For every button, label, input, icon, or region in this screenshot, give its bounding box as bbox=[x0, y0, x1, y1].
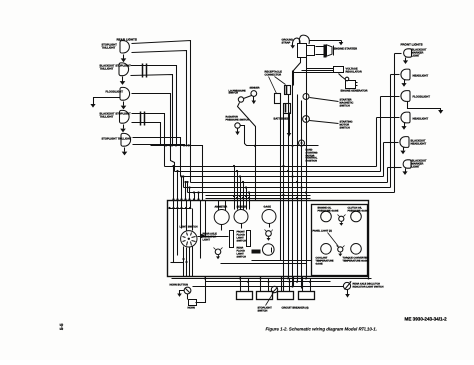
wire: low pressure to sender bbox=[244, 96, 252, 99]
wire: vertical x=306 starter to switches and panel bbox=[306, 58, 308, 279]
junction dots on harness crossings bbox=[282, 145, 307, 199]
wire: radiator switch to bus bbox=[241, 126, 319, 146]
wire: front bundle vertical x=390.5 bbox=[390, 75, 392, 188]
svg-text:STRAP: STRAP bbox=[282, 42, 291, 45]
light switch bbox=[181, 231, 197, 247]
wire: breaker 3 feeds bbox=[282, 277, 290, 289]
wire: front lamp stub y=74.5 bbox=[391, 74, 400, 76]
svg-text:TEMPERATURE GAGE: TEMPERATURE GAGE bbox=[343, 260, 369, 263]
stoplight switch bbox=[271, 286, 277, 292]
svg-text:SWITCH: SWITCH bbox=[237, 256, 247, 259]
wire: front bundle vertical x=376.5 bbox=[376, 118, 378, 167]
wire: main harness bus 5 bbox=[184, 187, 391, 189]
wire: below light switch bbox=[171, 247, 193, 277]
wire: front lamp stub y=117.5 bbox=[377, 117, 400, 119]
wire: main harness bus 3 bbox=[181, 176, 384, 178]
svg-text:HEADLIGHT: HEADLIGHT bbox=[413, 118, 429, 121]
wire: vertical x=280 (battery) bbox=[280, 104, 282, 261]
svg-text:HEADLIGHT: HEADLIGHT bbox=[411, 143, 427, 146]
wire: front bundle vertical x=387 bbox=[387, 168, 389, 183]
wire: rear lamp1 bottom feed, ends at y146 bus bbox=[132, 51, 188, 147]
wire: front lamp stub y=53 bbox=[395, 53, 402, 55]
starting motor switch bbox=[303, 116, 310, 123]
svg-text:BATTERIES: BATTERIES bbox=[274, 118, 289, 121]
ground (rear axle switch) bbox=[345, 290, 350, 298]
svg-text:CONNECTOR: CONNECTOR bbox=[265, 74, 282, 77]
wire: drop 3 into panel, junction bbox=[180, 175, 182, 200]
wire: inner panel horizontal y=260 bbox=[252, 260, 312, 262]
wire: rear floodlight feed, long vertical with jog bbox=[132, 94, 175, 172]
circuit breaker 4 bbox=[299, 289, 315, 300]
lamp: stoplight taillight (rear 1) bbox=[102, 38, 137, 54]
connector block 3 (dark) bbox=[284, 104, 291, 114]
ground for blackout marker light (front 1) bbox=[403, 58, 408, 65]
svg-text:FLOODLIGHT: FLOODLIGHT bbox=[106, 91, 124, 94]
svg-text:ENGINE GENERATOR: ENGINE GENERATOR bbox=[341, 90, 368, 93]
svg-text:INDICATOR LIGHT SWITCH: INDICATOR LIGHT SWITCH bbox=[353, 286, 384, 289]
horn bbox=[188, 294, 197, 306]
hand starting switch bbox=[299, 140, 305, 146]
wire: drop 1 into panel, junction bbox=[172, 165, 174, 201]
svg-text:TAILLIGHT: TAILLIGHT bbox=[102, 47, 116, 50]
svg-text:5-5: 5-5 bbox=[59, 323, 64, 330]
wire: drop 7 into panel, junction bbox=[197, 191, 199, 200]
engine starter U0 body bbox=[298, 44, 334, 58]
svg-text:GAGE: GAGE bbox=[264, 206, 272, 209]
torque converter temperature gage bbox=[351, 244, 362, 255]
lamp: stoplight taillight (rear 5) bbox=[102, 133, 132, 146]
wire: interior verticals x=200.5,205.5 bbox=[201, 201, 206, 259]
wire: rear lamp4 top feed, long vertical x=164 bbox=[132, 114, 165, 167]
ground for floodlight (rear) bbox=[121, 102, 127, 110]
svg-text:LIGHT SWITCH: LIGHT SWITCH bbox=[180, 226, 198, 229]
ground for stoplight taillight (rear 1) bbox=[121, 55, 127, 63]
wire: y=146 long run into panel bbox=[151, 144, 203, 200]
voltage regulator bbox=[334, 67, 344, 73]
wire: horn to bus bbox=[196, 277, 206, 303]
ground (rear floodlight branch) bbox=[90, 98, 120, 108]
svg-text:LIGHT: LIGHT bbox=[412, 166, 420, 169]
receptacle connector block 1 bbox=[275, 94, 281, 104]
gauge sub-panel bbox=[312, 205, 368, 276]
svg-text:REGULATOR: REGULATOR bbox=[346, 71, 362, 74]
wire: drop 5 into panel, junction bbox=[188, 186, 190, 200]
wire: breaker 1 feeds bbox=[241, 277, 249, 289]
wire: main harness bus 1 bbox=[165, 166, 377, 168]
wire: panel bottom drop x=293 bbox=[293, 277, 295, 287]
svg-text:PRESSURE SWITCH: PRESSURE SWITCH bbox=[226, 119, 250, 122]
wire: light switch output arrow bbox=[198, 234, 229, 238]
svg-text:FLOODLIGHT: FLOODLIGHT bbox=[413, 96, 431, 99]
wire: front lamp stub y=142 bbox=[384, 142, 399, 144]
starter button bbox=[263, 244, 275, 256]
ground (horn button) bbox=[177, 291, 184, 297]
wire: panel feed A1 bbox=[233, 165, 235, 210]
svg-text:LIGHT: LIGHT bbox=[203, 239, 211, 242]
svg-text:HEADLIGHT: HEADLIGHT bbox=[413, 75, 429, 78]
wire: panel bottom drop x=288 bbox=[288, 277, 290, 279]
wire: starter down-left bbox=[294, 58, 301, 86]
panel lamp symbol 2 bbox=[265, 230, 273, 241]
wire: inner panel horizontal y=263.5 bbox=[221, 263, 307, 265]
wire: starter output with arrow bbox=[310, 41, 344, 46]
wire: main harness bus 4 bbox=[191, 182, 388, 184]
lamp: headlight (front right) bbox=[401, 112, 429, 123]
wire: starter jumper arc bbox=[299, 35, 309, 44]
svg-text:POSITION: POSITION bbox=[306, 160, 318, 163]
svg-text:HORN BUTTON: HORN BUTTON bbox=[170, 284, 189, 287]
wire: gauge bottom stubs bbox=[222, 224, 270, 231]
svg-text:Figure 1-2. Schematic wiring d: Figure 1-2. Schematic wiring diagram Mod… bbox=[266, 327, 377, 332]
circuit breaker 3 bbox=[278, 289, 294, 300]
svg-text:CIRCUIT BREAKER (4): CIRCUIT BREAKER (4) bbox=[282, 307, 309, 310]
ground for headlight (front right) bbox=[401, 123, 406, 130]
wire: rear axle switch run bbox=[193, 286, 344, 288]
wire: battery ground arrow bbox=[287, 113, 292, 137]
svg-text:TAILLIGHT: TAILLIGHT bbox=[100, 116, 114, 119]
wire: breaker 4 feeds bbox=[303, 277, 311, 289]
svg-text:PRESSURE GAGE: PRESSURE GAGE bbox=[348, 210, 369, 213]
wire: drop 4 into panel, junction bbox=[184, 181, 186, 201]
leader to panel light 2 bbox=[328, 233, 339, 247]
svg-text:SENDER: SENDER bbox=[237, 206, 248, 209]
starter magnetic switch bbox=[303, 94, 309, 100]
wire: rear lamp2 top feed, ends at y146 bus bbox=[131, 66, 178, 147]
wire: cascade tap for bus6 bbox=[186, 181, 188, 193]
wire: rear lamp4 bottom feed to y146 run bbox=[132, 123, 161, 146]
wire: main harness bus 6 bbox=[188, 192, 395, 194]
wire: rear lamp2 bottom feed, ends at y146 bus bbox=[131, 75, 174, 147]
wire: rear lamp5 feed, long vertical x=180 bbox=[133, 138, 181, 177]
lamp: floodlight (rear) bbox=[106, 87, 130, 100]
lamp: floodlight (front) bbox=[401, 91, 430, 102]
wire: drop 6 into panel, junction bbox=[193, 191, 195, 200]
wire: light switch feeds bbox=[174, 201, 193, 263]
connector (rear lamp 4 wires) bbox=[141, 112, 145, 126]
wire: panel feed A4 bbox=[242, 181, 244, 210]
wire: front bundle vertical x=380 bbox=[380, 97, 382, 172]
ground for blackout marker light (front 2) bbox=[402, 169, 407, 176]
engine oil pressure gage bbox=[321, 211, 332, 222]
wire: front bundle vertical x=394 bbox=[394, 54, 396, 193]
junction dots bottom buses bbox=[204, 277, 370, 287]
svg-text:HORN: HORN bbox=[188, 307, 196, 310]
svg-text:LIGHT: LIGHT bbox=[412, 55, 420, 58]
wire: vertical x=292.5 bbox=[292, 71, 294, 287]
ground (front floodlight) bbox=[408, 102, 444, 114]
wire: generator lead bbox=[339, 74, 346, 80]
wire: main harness bus 2 bbox=[175, 171, 381, 173]
wire: panel to rear axle switch bbox=[368, 277, 370, 279]
indicator lamp symbol bbox=[214, 248, 223, 260]
lamp: blackout marker light (front 1) bbox=[401, 43, 427, 58]
svg-text:TAILLIGHT: TAILLIGHT bbox=[100, 68, 114, 71]
wire: vertical x=288 bbox=[288, 95, 290, 279]
wire: vertical x=301.5 bbox=[301, 101, 303, 289]
wire: vertical x=283.5 bbox=[283, 113, 285, 292]
panel light 1 bbox=[338, 215, 346, 226]
lamp: blackout marker light (front 2) bbox=[403, 160, 427, 169]
ground for blackout stoplight taillight (rear 2) bbox=[120, 77, 126, 85]
leader lines bbox=[269, 77, 277, 94]
svg-text:ENGINE STARTER: ENGINE STARTER bbox=[334, 48, 358, 51]
wire: front lamp stub y=167.7 bbox=[388, 167, 402, 169]
wire: bus 8 bbox=[206, 198, 311, 200]
wire: bus 7 bbox=[206, 195, 311, 197]
wire: panel bottom drop x=283.5 bbox=[283, 277, 285, 292]
svg-text:PANEL LIGHT (2): PANEL LIGHT (2) bbox=[313, 230, 333, 233]
ground (sender) bbox=[252, 97, 257, 105]
instrument panel enclosure bbox=[168, 201, 369, 277]
panel light 2 bbox=[337, 246, 345, 257]
circuit breaker 2 bbox=[257, 289, 273, 300]
wire: panel feed A6 bbox=[248, 191, 250, 209]
wire: panel feed A3 bbox=[239, 175, 241, 209]
leader stoplight switch bbox=[266, 293, 274, 306]
wire: cascade tap for bus5 bbox=[182, 175, 184, 187]
front flood light switch block bbox=[230, 231, 251, 248]
svg-text:GAGE: GAGE bbox=[316, 263, 323, 266]
lamp: blackout stoplight taillight (rear 4) bbox=[100, 110, 132, 123]
svg-text:SWITCH: SWITCH bbox=[258, 310, 268, 313]
wire: drop 2 into panel, junction bbox=[176, 170, 178, 201]
starter button label arrow bbox=[252, 250, 261, 254]
wire: bottom bus 2 bbox=[206, 281, 331, 283]
ground for blackout headlight bbox=[400, 148, 405, 155]
ground strap hook bbox=[292, 38, 300, 46]
wire: vertical x=297 bbox=[297, 95, 299, 282]
connector block 2 (dark) bbox=[285, 86, 291, 95]
wire: rear lamp5 second feed, ends at y146 bus bbox=[133, 144, 186, 146]
svg-text:SWITCH: SWITCH bbox=[340, 127, 350, 130]
wire: front bundle vertical x=383.5 bbox=[383, 143, 385, 177]
wire: panel feed A5 bbox=[245, 186, 247, 209]
wire: panel bottom drop x=306 bbox=[306, 277, 308, 279]
wire: regulator leads bbox=[293, 69, 334, 73]
wire: ammeter top stubs bbox=[219, 201, 226, 211]
svg-text:SWITCH: SWITCH bbox=[340, 105, 350, 108]
wire: lo pressure diagonal, down into panel bbox=[238, 103, 257, 201]
wire: front lamp stub y=96 bbox=[381, 96, 400, 98]
engine generator bbox=[345, 77, 357, 88]
svg-text:REAR LIGHTS: REAR LIGHTS bbox=[117, 38, 137, 42]
coolant temperature gage bbox=[321, 244, 332, 255]
lamp: headlight (front left) bbox=[401, 69, 429, 80]
lamp: blackout stoplight taillight (rear 2) bbox=[100, 63, 132, 76]
connector (rear lamp 2 wires) bbox=[143, 64, 147, 78]
svg-text:STOPLIGHT TAILLIGHT: STOPLIGHT TAILLIGHT bbox=[102, 138, 132, 141]
svg-text:SWITCH: SWITCH bbox=[229, 92, 239, 95]
ground for stoplight taillight (rear 5) bbox=[122, 148, 128, 156]
wire: bottom bus 1 bbox=[172, 278, 372, 280]
ground (radiator switch) bbox=[235, 129, 240, 136]
svg-text:FRONT LIGHTS: FRONT LIGHTS bbox=[401, 43, 423, 47]
lamp: blackout headlight bbox=[400, 137, 427, 148]
rear axle declutch indicator light switch bbox=[343, 281, 351, 290]
clutch oil pressure gage bbox=[351, 211, 362, 222]
svg-text:PRESSURE GAGE: PRESSURE GAGE bbox=[318, 210, 339, 213]
svg-text:SWITCH: SWITCH bbox=[237, 240, 247, 243]
ground for blackout stoplight taillight (rear 4) bbox=[120, 125, 126, 133]
svg-text:AMMETER: AMMETER bbox=[215, 206, 228, 209]
wire: rear lamp1 top feed, long vertical x=190 bbox=[132, 41, 191, 183]
wire: panel feed A2 bbox=[236, 170, 238, 210]
wire: panel bottom drop x=297.5 bbox=[297, 277, 299, 282]
wire: breaker 2 feeds bbox=[261, 277, 269, 289]
ground for headlight (front left) bbox=[401, 80, 406, 87]
panel inner bus and dots bbox=[168, 207, 191, 209]
wire: panel bottom drop x=302 bbox=[302, 277, 304, 289]
svg-text:SENDER: SENDER bbox=[250, 87, 260, 90]
circuit breaker 1 bbox=[237, 289, 253, 300]
svg-text:ME 3930-243-34/1-2: ME 3930-243-34/1-2 bbox=[405, 317, 448, 322]
